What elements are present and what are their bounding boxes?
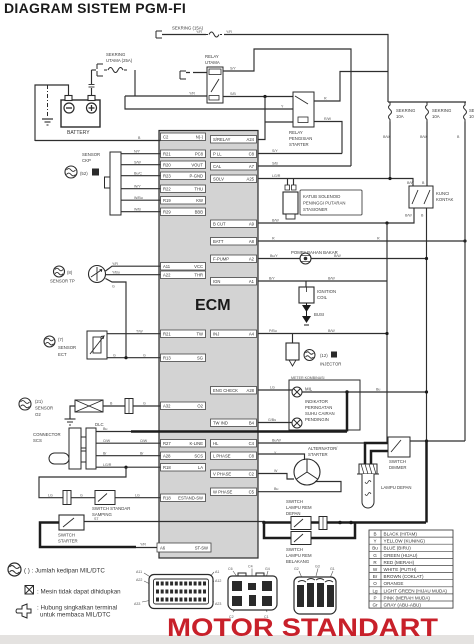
svg-text:A9: A9 [249,222,255,227]
wire TW IND to temp lamp [258,422,292,424]
connector side stand [63,491,71,505]
SCS shorting plug [49,453,69,464]
svg-text:PC8: PC8 [195,152,204,157]
svg-text:R19: R19 [163,198,171,203]
pin HL C4 [211,440,257,448]
connector ECM 33P [149,575,213,609]
connector O2 [125,399,133,414]
bottom scan strip [0,635,474,644]
svg-text:C8: C8 [249,454,255,459]
svg-text:A7: A7 [249,164,255,169]
svg-text:UTAMA: UTAMA [205,60,220,65]
svg-text:C5: C5 [249,490,255,495]
svg-text:SCS: SCS [33,438,42,443]
svg-text:10A: 10A [396,114,404,119]
wire to relay pengisian mid pin [125,96,293,109]
svg-text:Y/R: Y/R [196,30,202,34]
svg-text:PINK (MERAH MUDA): PINK (MERAH MUDA) [384,595,431,600]
svg-text:10A: 10A [432,114,440,119]
svg-text:G: G [112,285,115,289]
svg-text:SENSOR: SENSOR [35,406,53,411]
legend jumper symbol [16,604,31,618]
svg-text:A11: A11 [136,570,142,574]
wire TP THR [106,274,161,276]
svg-text:A1: A1 [249,279,255,284]
node ECT TP ground [124,356,127,359]
svg-text:R20: R20 [163,163,171,168]
ignition coil T1 pin [305,281,307,287]
svg-text:STARTER: STARTER [289,142,309,147]
svg-text:SEKRING: SEKRING [396,108,416,113]
svg-text:L PHASE: L PHASE [213,454,231,459]
svg-text:KONTAK: KONTAK [436,197,453,202]
svg-text:LAMPU DEPAN: LAMPU DEPAN [381,485,411,490]
wire starter switch to rem bus [84,521,264,523]
svg-text:A28: A28 [247,388,255,393]
svg-text:Bu/Y: Bu/Y [270,254,278,258]
katub solenoid label box [300,190,362,215]
svg-text:HL: HL [213,441,219,446]
svg-text:UTAMA (25A): UTAMA (25A) [106,58,133,63]
wire bulb terminal 1 thick [365,443,388,464]
svg-text:Y/R: Y/R [112,262,118,266]
pin R18 LA [161,464,206,472]
wire V PHASE [258,474,294,480]
svg-text:ST-SW: ST-SW [195,546,208,551]
svg-text:Bu: Bu [103,427,107,431]
svg-text:SG: SG [197,356,203,361]
wire CKP 6 [121,211,161,213]
wire DLC LG [96,466,161,468]
sensor ECT [87,331,107,359]
svg-text:PERINGATAN: PERINGATAN [305,405,332,410]
svg-text:Y/R: Y/R [140,543,146,547]
svg-text:Y/Bu: Y/Bu [112,270,120,274]
wire CAL [258,165,351,167]
svg-text:DIMMER: DIMMER [389,465,406,470]
svg-text:B/W: B/W [383,135,390,139]
svg-text:K-LINE: K-LINE [190,441,204,446]
svg-text:(52): (52) [80,171,88,176]
wire MIL to bus [302,391,427,393]
svg-text:Bu: Bu [376,388,380,392]
svg-text:R: R [324,97,327,101]
svg-text:BATT: BATT [213,239,224,244]
svg-text:IGN: IGN [213,279,220,284]
node rem mid [338,521,342,525]
svg-text:INJECTOR: INJECTOR [320,362,341,367]
svg-text:STARTER: STARTER [308,452,328,457]
svg-text:Bu/W: Bu/W [272,439,281,443]
fuse F1 10A [389,102,392,122]
wire side stand to ECM [115,497,161,499]
pin R18 ESTAND-SW [161,494,206,502]
node pump bus [425,257,428,260]
wire CKP 2 [121,164,161,166]
svg-text:SWITCH: SWITCH [389,459,406,464]
svg-text:T/W: T/W [136,329,143,333]
wire relay pengisian pin3 [265,121,293,123]
wire fuse2 to kunci kontak [426,122,428,187]
wire DLC K-LINE [96,442,161,444]
wire colour legend table [369,530,453,608]
pin B CUT A9 [211,220,257,228]
wire L PHASE [258,454,305,460]
svg-text:Y/R: Y/R [226,30,232,34]
wire CKP 5 [121,199,161,201]
svg-text:PENINGGI PUTARAN: PENINGGI PUTARAN [303,201,345,206]
svg-text:PENDINGIN: PENDINGIN [305,417,329,422]
pin P LL C8 [211,150,257,158]
wire CKP 3 [121,175,161,177]
svg-text:R13: R13 [163,356,171,361]
svg-text:Br: Br [373,574,378,579]
svg-text:BLUE (BIRU): BLUE (BIRU) [384,546,412,551]
wire kunci out left / B CUT [258,208,414,223]
svg-text:C8: C8 [249,152,255,157]
wire BATT [258,240,465,242]
pin R19 KW [161,197,206,205]
svg-text:A32: A32 [163,404,171,409]
node rem bus left [262,521,266,525]
svg-text:A1: A1 [215,570,219,574]
pin TW IND B4 [211,419,257,427]
svg-text:S/Y: S/Y [272,149,278,153]
svg-text:Bu/C: Bu/C [134,171,142,175]
meter kombinasi cluster box [289,380,360,430]
relay pengisian starter K2 [293,92,314,127]
wire SOLV line [258,179,413,187]
switch standar samping S5 [95,491,115,505]
svg-text:V PHASE: V PHASE [213,472,231,477]
svg-text:B/W: B/W [420,135,427,139]
node B/W branch [385,221,388,224]
wire DLC to MIL thick [131,430,347,433]
injector DTC marker (12) [304,350,315,361]
wire fuse3 down [464,122,466,442]
svg-text:RED (MERAH): RED (MERAH) [384,560,415,565]
pin R21 TW [161,330,206,338]
pin INJ A4 [211,330,257,338]
pin R29 BBB [161,208,206,216]
svg-text:SE: SE [469,108,474,113]
pin SOLV A25 [211,175,257,183]
svg-text:Lg: Lg [372,588,378,593]
alternator G1 [294,459,320,485]
svg-text:A8: A8 [249,239,255,244]
ground [42,118,53,120]
svg-text:STASIONER: STASIONER [303,207,328,212]
node DLC branch [124,466,127,469]
switch dimmer S2 [388,437,410,457]
legend no-start symbol [25,586,34,595]
svg-text:O2: O2 [197,404,203,409]
kunci kontak S1 [409,186,433,208]
wire rem bus to headlamp bus [327,521,426,524]
pin A28 SCS [161,452,206,460]
wire B/W vertical branch [386,223,388,443]
wire rem belakang branch thick [264,523,291,539]
svg-text:THR: THR [194,273,203,278]
svg-text:B: B [373,532,376,537]
svg-text:SOLV: SOLV [213,177,224,182]
svg-text:( ) : Jumlah kedipan MIL/DTC: ( ) : Jumlah kedipan MIL/DTC [24,568,105,575]
svg-text:A23: A23 [215,602,221,606]
wire MIL DLC thick branch [346,392,349,432]
svg-text:BLACK (HITAM): BLACK (HITAM) [384,532,418,537]
svg-text:R27: R27 [163,441,171,446]
svg-text:POMPA BAHAN BAKAR: POMPA BAHAN BAKAR [291,250,338,255]
lampu depan bulb body [362,474,374,508]
svg-text:LG/R: LG/R [272,174,281,178]
svg-text:G: G [373,553,377,558]
wire ECT signal [107,333,161,335]
svg-text:CKP: CKP [82,158,91,163]
svg-text:C4: C4 [249,441,255,446]
svg-text:P LL: P LL [213,152,222,157]
wire kunci out right main B/W bus [426,208,428,441]
svg-text:C2: C2 [163,135,169,140]
svg-text:CAL: CAL [213,164,222,169]
sensor TP DTC marker (8) [54,266,65,277]
sensor O2 DTC marker (21) [19,398,31,410]
pin A32 O2 [161,402,206,410]
wire pump to bus [311,258,427,260]
svg-text:B4: B4 [249,421,255,426]
svg-text:SCS: SCS [194,454,203,459]
pin IGN A1 [211,278,257,286]
svg-text:S/W: S/W [134,160,141,164]
sensor O2 [75,400,103,412]
svg-text:ORANGE: ORANGE [384,581,404,586]
fuse F-utama 25A [92,69,97,71]
svg-text:LA: LA [198,465,203,470]
svg-text:SEKRING: SEKRING [432,108,452,113]
pin R22 THU [161,185,206,193]
injector V1 pin [292,334,294,344]
busi E1 [302,305,311,312]
svg-text:MOTOR STANDART: MOTOR STANDART [167,614,438,642]
svg-text:SWITCH: SWITCH [286,547,303,552]
wire to side stand switch [71,497,95,499]
wire dimmer to fuse3 [410,440,465,442]
svg-text:BROWN (COKLAT): BROWN (COKLAT) [384,574,424,579]
wire DLC SCS [96,455,161,457]
svg-text:G3: G3 [315,565,320,569]
connector bracket relay utama pin [180,71,186,79]
svg-text:A2: A2 [249,257,255,262]
svg-text:N(-): N(-) [196,135,204,140]
pin R13 SG [161,354,206,362]
svg-text:R22: R22 [163,187,171,192]
wire relay utama out bottom to relay pengisian [223,96,293,98]
svg-text:LAMPU REM: LAMPU REM [286,505,312,510]
svg-text:SEKRING: SEKRING [106,52,126,57]
svg-text:B/W: B/W [328,329,335,333]
MIL lamp [292,387,302,397]
battery minus terminal [64,103,74,113]
svg-text:INDIKATOR: INDIKATOR [305,399,328,404]
pin R27 K-LINE [161,440,206,448]
svg-text:10: 10 [469,114,474,119]
svg-text:IGNITION: IGNITION [317,289,336,294]
wire bracket to relay [186,72,207,74]
svg-text:KW: KW [196,198,203,203]
svg-text:SWITCH: SWITCH [286,499,303,504]
pin A6 ST-SW [157,543,211,552]
svg-text:W/Y: W/Y [134,184,141,188]
svg-text:DIAGRAM SISTEM PGM-FI: DIAGRAM SISTEM PGM-FI [4,0,186,16]
svg-text:SWITCH STANDAR: SWITCH STANDAR [92,506,130,511]
svg-text:LG: LG [270,386,275,390]
svg-text:C2: C2 [249,472,255,477]
svg-text:B CUT: B CUT [213,222,226,227]
wire 15A feed to fuse bus [162,35,388,103]
svg-text:W: W [373,567,378,572]
svg-text:INJ: INJ [213,332,219,337]
fuse F3 10A [464,102,467,122]
svg-text:P/Bu: P/Bu [269,329,277,333]
wire O2 signal [103,405,125,407]
wire CKP 1 [121,153,161,155]
svg-text:COIL: COIL [317,295,328,300]
node BATT-fuse3 [463,239,466,242]
wire relay utama out top [223,49,351,166]
wire battery plus up with connector ticks [91,88,93,96]
svg-text:(8): (8) [67,270,73,275]
switch lampu rem depan S3 [291,517,311,530]
svg-text:W/B: W/B [134,207,141,211]
svg-text:G: G [80,493,83,497]
svg-text:N/Y: N/Y [134,149,141,153]
svg-text:PENGISIAN: PENGISIAN [289,136,312,141]
svg-text:WHITE (PUTIH): WHITE (PUTIH) [384,567,417,572]
wire O2 to ground [70,406,75,419]
svg-text:C6: C6 [228,567,233,571]
svg-text:A11: A11 [163,264,171,269]
svg-text:LG: LG [135,493,140,497]
pin R23 P-GND [161,172,206,180]
svg-text:: Mesin tidak dapat dihidupkan: : Mesin tidak dapat dihidupkan [37,589,121,596]
svg-text:S/RELAY: S/RELAY [213,137,231,142]
svg-text:A6: A6 [160,546,166,551]
temp warning lamp [292,418,302,428]
wire TP VCC [106,266,161,271]
wire side stand loop [39,467,126,498]
svg-text:LAMPU REM: LAMPU REM [286,553,312,558]
katub solenoid Y1 pins [288,179,294,186]
wire IGN [258,280,387,282]
pin A22 THR [161,271,206,279]
DLC connector halves [69,428,81,469]
connector C 6P [228,576,277,610]
svg-text:untuk membaca MIL/DTC: untuk membaca MIL/DTC [40,612,111,619]
svg-text:G: G [113,353,116,357]
svg-text:O/W: O/W [140,439,148,443]
svg-text:R18: R18 [163,496,171,501]
svg-text:B/W: B/W [405,214,412,218]
injector V1 body [286,343,299,360]
svg-text:G: G [143,353,146,357]
wire relay pengisian out1 [314,72,388,102]
wire starter switch thick loop [40,523,136,548]
pin CAL A7 [211,163,257,171]
svg-text:CONNECTOR: CONNECTOR [33,432,61,437]
svg-text:STARTER: STARTER [58,539,78,544]
wire belakang out thick [311,523,355,539]
wire W PHASE [258,482,341,492]
battery plus terminal [87,103,97,113]
svg-text:F-PUMP: F-PUMP [213,257,229,262]
svg-text:RELAY: RELAY [205,54,219,59]
wire fuse1 to kunci kontak [389,122,391,179]
svg-text:YELLOW (KUNING): YELLOW (KUNING) [384,539,426,544]
wire HL [258,442,365,444]
svg-text:A12: A12 [215,579,221,583]
svg-text:P: P [373,595,376,600]
svg-text:P-GND: P-GND [190,174,204,179]
svg-text:R23: R23 [163,174,171,179]
connector rem [319,517,327,530]
svg-text:A4: A4 [249,332,255,337]
svg-text:R: R [377,237,380,241]
katub solenoid Y1 body [283,192,298,214]
wire bulb terminal 2 thick [371,451,388,464]
pin R20 VOUT [161,161,206,169]
svg-text:BATTERY: BATTERY [67,130,90,136]
wire starter to ECM ST-SW [136,547,157,549]
node MIL thick branch [345,390,348,393]
svg-text:KUNCI: KUNCI [436,191,449,196]
svg-text:B/W: B/W [328,277,335,281]
sensor ECT DTC marker (7) [44,336,55,347]
svg-text:B/W: B/W [334,254,341,258]
svg-text:Bu: Bu [372,546,378,551]
connector CKP [110,152,121,215]
svg-text:R/W: R/W [324,117,332,121]
svg-text:(21): (21) [35,399,43,404]
pin ENG CHECK A28 [211,387,257,395]
svg-text:GRAY (ABU-ABU): GRAY (ABU-ABU) [384,603,422,608]
wire ENG CHECK to MIL [258,389,292,391]
node dimmer bus [425,439,428,442]
legend flash-count symbol [8,563,21,576]
wire INJ [258,333,387,335]
pin F-PUMP A2 [211,255,257,263]
svg-text:LIGHT GREEN (HIJAU MUDA): LIGHT GREEN (HIJAU MUDA) [384,588,448,593]
wire battery ground B to ECM C2 [35,140,161,142]
svg-text:O/W: O/W [103,439,111,443]
svg-text:ST: ST [94,517,99,521]
svg-text:ECT: ECT [58,352,67,357]
wire TP ground down [106,279,127,358]
svg-text:A25: A25 [247,177,255,182]
battery BT1 [61,100,100,127]
connector bracket 15A line [156,31,162,38]
svg-text:SENSOR TP: SENSOR TP [50,279,75,284]
wire fuse to relay utama [134,70,136,96]
wire relay pengisian out2 [314,122,342,154]
wire O2 to ECM [133,405,161,407]
svg-text:(12): (12) [320,353,328,358]
pin W PHASE C5 [211,488,257,496]
svg-text:SENSOR: SENSOR [82,152,100,157]
relay utama K1 [207,67,223,103]
svg-text:R21: R21 [163,152,171,157]
svg-text:S/B: S/B [272,162,278,166]
svg-text:G/Bu: G/Bu [268,418,276,422]
svg-text:G1: G1 [330,567,335,571]
